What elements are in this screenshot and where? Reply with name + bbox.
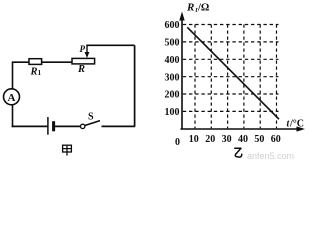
wire between R1 and R	[42, 61, 72, 63]
svg-text:60: 60	[271, 134, 281, 145]
svg-text:anfen5.com: anfen5.com	[247, 151, 294, 161]
svg-text:30: 30	[222, 134, 232, 145]
svg-text:200: 200	[165, 90, 180, 101]
y tick labels	[165, 20, 180, 118]
wire switch to right	[102, 125, 136, 127]
svg-text:P: P	[80, 44, 86, 54]
label jia (甲)	[63, 145, 72, 155]
slider arrow P	[80, 44, 90, 58]
svg-text:1: 1	[38, 69, 42, 77]
svg-text:400: 400	[165, 55, 180, 66]
vertical dashed gridlines	[195, 25, 277, 129]
svg-text:R: R	[186, 2, 194, 14]
resistor R1	[29, 59, 42, 78]
svg-text:20: 20	[205, 134, 215, 145]
svg-text:R: R	[77, 64, 85, 75]
wire battery to switch	[55, 125, 80, 127]
svg-text:0: 0	[175, 137, 180, 148]
svg-text:10: 10	[189, 134, 199, 145]
wire right side	[134, 45, 136, 126]
ammeter A	[4, 89, 20, 105]
x-axis	[181, 126, 306, 131]
svg-text:A: A	[8, 92, 16, 104]
switch S	[81, 111, 101, 128]
svg-text:50: 50	[254, 134, 264, 145]
x tick labels	[189, 134, 281, 145]
wire top-left segment	[13, 61, 30, 63]
svg-text:500: 500	[165, 38, 180, 49]
svg-text:/°C: /°C	[289, 119, 304, 130]
svg-text:600: 600	[165, 20, 180, 31]
wire top-right	[86, 44, 134, 46]
y-axis label Rt/Ohm	[186, 2, 209, 15]
svg-text:S: S	[88, 111, 94, 122]
wire bottom-left	[12, 125, 48, 127]
svg-text:R: R	[30, 67, 38, 78]
x-axis label t/°C	[287, 119, 305, 130]
svg-text:/Ω: /Ω	[197, 3, 209, 14]
svg-text:40: 40	[238, 134, 248, 145]
label yi (乙)	[235, 148, 242, 157]
y-axis	[179, 12, 184, 130]
rheostat R	[72, 58, 95, 75]
origin label 0	[175, 137, 180, 148]
resistance line	[187, 27, 279, 119]
svg-text:300: 300	[165, 72, 180, 83]
svg-text:100: 100	[165, 107, 180, 118]
horizontal dashed gridlines	[183, 25, 279, 112]
battery	[48, 117, 54, 135]
wire left side upper	[12, 61, 14, 89]
faint watermark	[247, 151, 294, 161]
wire left side lower	[12, 105, 14, 127]
